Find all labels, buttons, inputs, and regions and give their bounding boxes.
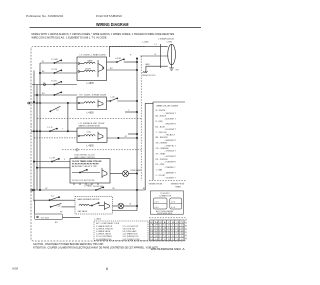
model chart table <box>150 220 185 241</box>
table cell text <box>150 222 184 241</box>
switch S6 <box>110 98 117 101</box>
svg-text:T - TAN: T - TAN <box>156 169 163 172</box>
svg-text:R - RED: R - RED <box>156 121 164 123</box>
terminal block line <box>160 44 162 68</box>
wire U3 out <box>107 137 137 139</box>
svg-text:OR - ORANGE: OR - ORANGE <box>156 147 170 150</box>
svg-text:PK - PINK: PK - PINK <box>156 164 166 166</box>
bus lower segment <box>136 190 138 211</box>
right vertical feeder <box>144 103 146 190</box>
svg-text:6/05: 6/05 <box>12 267 18 271</box>
svg-text:OVEN LAMP: OVEN LAMP <box>130 169 142 172</box>
svg-text:CONNECTOR: CONNECTOR <box>159 195 172 197</box>
broil module A2 dashed box <box>75 196 112 214</box>
table row lines <box>150 224 185 238</box>
svg-text:L-4805: L-4805 <box>87 83 95 85</box>
switch S5 oven <box>117 59 124 62</box>
svg-text:W: W <box>130 203 132 205</box>
bus BR right vertical <box>136 58 138 190</box>
wire row3 left <box>32 84 77 86</box>
U3 terminal <box>78 135 80 137</box>
svg-text:5F 18 12 16 14 18 12 14: 5F 18 12 16 14 18 12 14 <box>150 236 183 238</box>
svg-text:5-3 BAKE VALVE: 5-3 BAKE VALVE <box>96 230 111 233</box>
svg-text:WD-316906204 REV. A: WD-316906204 REV. A <box>151 248 186 251</box>
wire row2 left <box>40 72 77 74</box>
svg-text:VIEWED FROM: VIEWED FROM <box>149 184 163 186</box>
svg-text:- BLU/WHT T: - BLU/WHT T <box>165 129 177 131</box>
wire top feed <box>110 46 145 48</box>
svg-text:Publication No. 316906204: Publication No. 316906204 <box>26 14 63 18</box>
A1 internal row <box>72 172 100 174</box>
angled switch S10 <box>50 106 60 111</box>
switch S3 <box>54 82 61 85</box>
svg-text:1 2 3: 1 2 3 <box>155 202 159 204</box>
svg-text:FROM WIRE SIDE: FROM WIRE SIDE <box>157 213 173 215</box>
svg-text:5-4 BROIL VALVE: 5-4 BROIL VALVE <box>96 233 112 236</box>
svg-text:L-6: L-6 <box>56 110 59 112</box>
svg-text:- GRY/WHT T: - GRY/WHT T <box>165 156 178 158</box>
component key dashed box <box>94 221 148 240</box>
svg-text:- WHT/BLK T: - WHT/BLK T <box>165 113 177 115</box>
svg-text:5-10 SPARK MOD: 5-10 SPARK MOD <box>123 233 139 236</box>
wire row4 left <box>34 94 77 96</box>
wire row8 <box>37 167 70 169</box>
power line N <box>140 55 167 57</box>
dashed partition vertical right <box>140 56 142 181</box>
svg-text:GY - GRAY: GY - GRAY <box>156 152 167 155</box>
surface unit module U1 box <box>77 57 107 81</box>
svg-text:WIRING DIAGRAM: WIRING DIAGRAM <box>96 22 129 27</box>
svg-text:P-1 BK: P-1 BK <box>52 59 59 61</box>
svg-text:TERM. BLOCK: TERM. BLOCK <box>142 75 156 77</box>
svg-text:KEY - COMPONENT CODE: KEY - COMPONENT CODE <box>96 223 120 225</box>
bus B1 vertical <box>33 71 35 201</box>
switch S11 <box>50 197 59 200</box>
svg-text:L.F. 2350W - L.REAR 1300W: L.F. 2350W - L.REAR 1300W <box>80 54 106 57</box>
svg-text:MODEL WITH 1 CROSS ALWAYS, T C: MODEL WITH 1 CROSS ALWAYS, T CROSS CODES… <box>32 33 176 36</box>
U1 terminal 1 <box>78 63 80 65</box>
dashed partition horizontal upper <box>37 117 141 119</box>
surface unit module U2 box <box>77 97 107 110</box>
svg-text:DOOR LOCK MOTOR SW: DOOR LOCK MOTOR SW <box>72 180 95 182</box>
svg-text:2C 14 12 18 14 16 12 18: 2C 14 12 18 14 16 12 18 <box>150 228 183 230</box>
svg-text:L.R. SURFACE UNIT 1250W: L.R. SURFACE UNIT 1250W <box>79 122 105 125</box>
svg-text:REAR: REAR <box>175 185 181 188</box>
svg-text:2350W: 2350W <box>85 68 91 70</box>
svg-text:5-6 SURFACE SW: 5-6 SURFACE SW <box>96 238 112 241</box>
svg-text:4E 16 14 12 18 12 14 18: 4E 16 14 12 18 12 14 18 <box>150 233 183 235</box>
U2 terminal <box>78 102 80 104</box>
svg-text:WIRE CON 0.INSTR 0201.AS ; 1 E: WIRE CON 0.INSTR 0201.AS ; 1 ELEMENT DI … <box>32 37 107 40</box>
svg-text:- BLK/WHT T: - BLK/WHT T <box>165 118 177 120</box>
svg-text:5-12 POWER CORD: 5-12 POWER CORD <box>123 239 141 241</box>
U2 element coil <box>84 102 95 103</box>
svg-text:BAKE BURNER IGNITOR: BAKE BURNER IGNITOR <box>78 198 101 201</box>
svg-text:CORD: CORD <box>167 42 173 44</box>
svg-text:L-2 W: L-2 W <box>50 157 55 159</box>
wire U1 out row <box>107 61 118 63</box>
junction dots right bus <box>136 58 137 59</box>
svg-text:L-3 BK: L-3 BK <box>115 58 122 60</box>
long wire row9 <box>32 189 145 191</box>
svg-text:L-4805: L-4805 <box>87 145 95 147</box>
svg-text:- PUR/WHT T: - PUR/WHT T <box>165 162 178 164</box>
A1 pin ticks <box>74 183 98 185</box>
wire top feed drop <box>109 46 111 57</box>
svg-text:ATTENTION : COUPER L'ALIMENTAT: ATTENTION : COUPER L'ALIMENTATION ELECTR… <box>33 247 159 250</box>
wire row7 <box>34 161 70 163</box>
svg-text:1 2 3: 1 2 3 <box>171 202 175 204</box>
svg-text:- RED/WHT T: - RED/WHT T <box>165 124 178 126</box>
dashed separator above connector views <box>149 180 186 182</box>
U1 element coil row1 <box>84 62 95 63</box>
wire row5 <box>31 130 77 132</box>
svg-text:1 30 AMP/240V AC: 1 30 AMP/240V AC <box>158 38 175 41</box>
U2 relay K2 <box>97 100 99 108</box>
svg-text:L-1 R: L-1 R <box>48 127 53 129</box>
wire row10 <box>112 210 137 212</box>
svg-text:GN - GREEN: GN - GREEN <box>156 143 168 145</box>
svg-text:1B 18 14 12 16 18 14 12: 1B 18 14 12 16 18 14 12 <box>150 225 183 227</box>
svg-text:BK - BLACK: BK - BLACK <box>156 115 167 118</box>
indicator lamp DS2 <box>118 203 124 209</box>
bus stub c <box>128 133 137 135</box>
svg-text:P-3 R: P-3 R <box>52 81 58 83</box>
ground drop wire <box>145 66 147 73</box>
svg-text:- TAN/WHT T: - TAN/WHT T <box>165 171 177 174</box>
svg-text:L-22: L-22 <box>57 206 61 208</box>
dashed partition horizontal mid <box>62 149 141 151</box>
power line L1 <box>145 46 168 48</box>
svg-text:MD WH RD BK YL GN OR PK: MD WH RD BK YL GN OR PK <box>150 222 184 224</box>
svg-text:6: 6 <box>106 267 108 271</box>
wire row6 dashed <box>34 137 77 139</box>
svg-text:COIL: COIL <box>87 131 91 133</box>
svg-text:3D 12 18 14 12 14 18 16: 3D 12 18 14 12 14 18 16 <box>150 230 183 232</box>
svg-text:V - VIOLET: V - VIOLET <box>156 175 167 177</box>
ground symbol <box>171 65 173 68</box>
switch S1 <box>54 60 61 63</box>
wire U1 out row2 <box>107 69 138 71</box>
timer box TD1 <box>35 214 63 220</box>
svg-text:VIEWED FROM: VIEWED FROM <box>171 184 185 186</box>
bus B2 vertical <box>36 85 38 191</box>
svg-text:R.F. 1250W - R.REAR 1250W: R.F. 1250W - R.REAR 1250W <box>80 94 107 97</box>
node diamond on mid partition <box>76 148 79 151</box>
svg-text:4 5 6: 4 5 6 <box>171 207 175 209</box>
svg-text:- ORG/BLK T: - ORG/BLK T <box>165 151 177 153</box>
wire into A2 row2 <box>61 206 75 208</box>
A1 relay <box>101 168 103 178</box>
svg-text:L-4805: L-4805 <box>143 42 150 44</box>
svg-text:WIRE COLOR CODES: WIRE COLOR CODES <box>157 106 179 108</box>
svg-text:5-1 BAKE IGNITOR: 5-1 BAKE IGNITOR <box>96 225 113 228</box>
A2 relay <box>104 202 106 211</box>
svg-text:BAKE: BAKE <box>88 59 94 62</box>
svg-text:- PNK/BLK T: - PNK/BLK T <box>165 167 177 169</box>
wire row1 left <box>40 62 77 64</box>
bus stub b <box>125 111 137 113</box>
svg-text:W: W <box>42 61 44 63</box>
svg-text:GND: GND <box>145 64 150 66</box>
svg-text:- BRN/WHT T: - BRN/WHT T <box>165 140 178 142</box>
power cord P1 <box>168 44 176 65</box>
svg-text:L-4805: L-4805 <box>95 218 102 220</box>
svg-text:BK W R BU Y OR GY V T PK: BK W R BU Y OR GY V T PK <box>72 166 97 168</box>
wire U2 out <box>107 100 111 102</box>
A2 coil <box>79 204 89 205</box>
svg-text:DOOR SW: DOOR SW <box>93 186 103 188</box>
connector view box <box>150 191 183 214</box>
switch S8 <box>52 159 59 162</box>
A2 switch <box>92 203 98 206</box>
svg-text:5-9 OVEN LAMP: 5-9 OVEN LAMP <box>123 230 138 233</box>
wire to bus <box>117 100 137 102</box>
svg-text:FGF337ABDW: FGF337ABDW <box>96 14 122 18</box>
switch S9 <box>96 187 103 190</box>
bus B3 vertical <box>39 63 41 190</box>
wire A2 out <box>112 205 117 207</box>
svg-text:BU - BLUE: BU - BLUE <box>156 126 166 128</box>
svg-text:GAS VALVE: GAS VALVE <box>78 210 89 213</box>
svg-text:- VIO/WHT T: - VIO/WHT T <box>165 178 177 180</box>
junction dots left buses <box>33 101 34 102</box>
svg-text:L-4805: L-4805 <box>85 186 93 188</box>
surface unit module U3 box <box>77 128 107 142</box>
header rule <box>30 26 202 28</box>
wire code labels <box>42 54 146 224</box>
svg-text:PR - PURPLE: PR - PURPLE <box>156 159 169 161</box>
svg-text:P-2 W: P-2 W <box>52 69 58 71</box>
svg-text:6G 14 18 12 16 14 18 12: 6G 14 18 12 16 14 18 12 <box>150 239 183 241</box>
connector J1 pin view <box>153 198 167 209</box>
cabinet dashed enclosure <box>31 47 186 241</box>
svg-text:TOD 120V: TOD 120V <box>41 217 50 219</box>
wire into A2 row1 <box>33 199 75 201</box>
switch S2 <box>54 70 61 73</box>
wire row into U2 <box>29 102 77 104</box>
switch S7 <box>50 128 57 131</box>
svg-text:- YEL/BLK T: - YEL/BLK T <box>165 135 177 137</box>
oven lamp DS1 <box>110 173 123 175</box>
U3 element coil <box>84 135 95 136</box>
svg-text:- GRN/YEL T: - GRN/YEL T <box>165 145 177 147</box>
svg-text:WARM & SERVE 800W: WARM & SERVE 800W <box>79 125 100 128</box>
vertical drop to timer box <box>34 200 36 214</box>
svg-text:W - WHITE: W - WHITE <box>156 110 167 112</box>
connector ring row3 <box>44 84 46 86</box>
svg-text:L-4805: L-4805 <box>87 113 95 115</box>
U1 relay K1 <box>97 60 99 77</box>
vertical link mid <box>67 103 69 131</box>
svg-text:4 5 6: 4 5 6 <box>155 207 159 209</box>
wire color code legend box <box>153 101 185 103</box>
wire from timer box <box>63 217 80 219</box>
switch S4 <box>54 92 61 95</box>
U3 relay K3 <box>97 132 99 141</box>
U1 element coil row2 <box>84 70 95 71</box>
dashed separator above chart table <box>149 217 185 219</box>
switch S12 angled <box>51 203 62 207</box>
table column lines <box>154 220 179 241</box>
connector J2 pin view <box>170 198 182 209</box>
svg-text:CAUTION - DISCONNECT POWER BEF: CAUTION - DISCONNECT POWER BEFORE SERVIC… <box>33 243 104 246</box>
U1 terminal 2 <box>78 71 80 73</box>
svg-text:BR - BROWN: BR - BROWN <box>156 137 168 139</box>
clock timer module A1 box <box>70 159 110 184</box>
svg-text:Y - YELLOW: Y - YELLOW <box>156 132 167 134</box>
power line GND <box>146 65 168 67</box>
wire to bus <box>124 61 137 63</box>
